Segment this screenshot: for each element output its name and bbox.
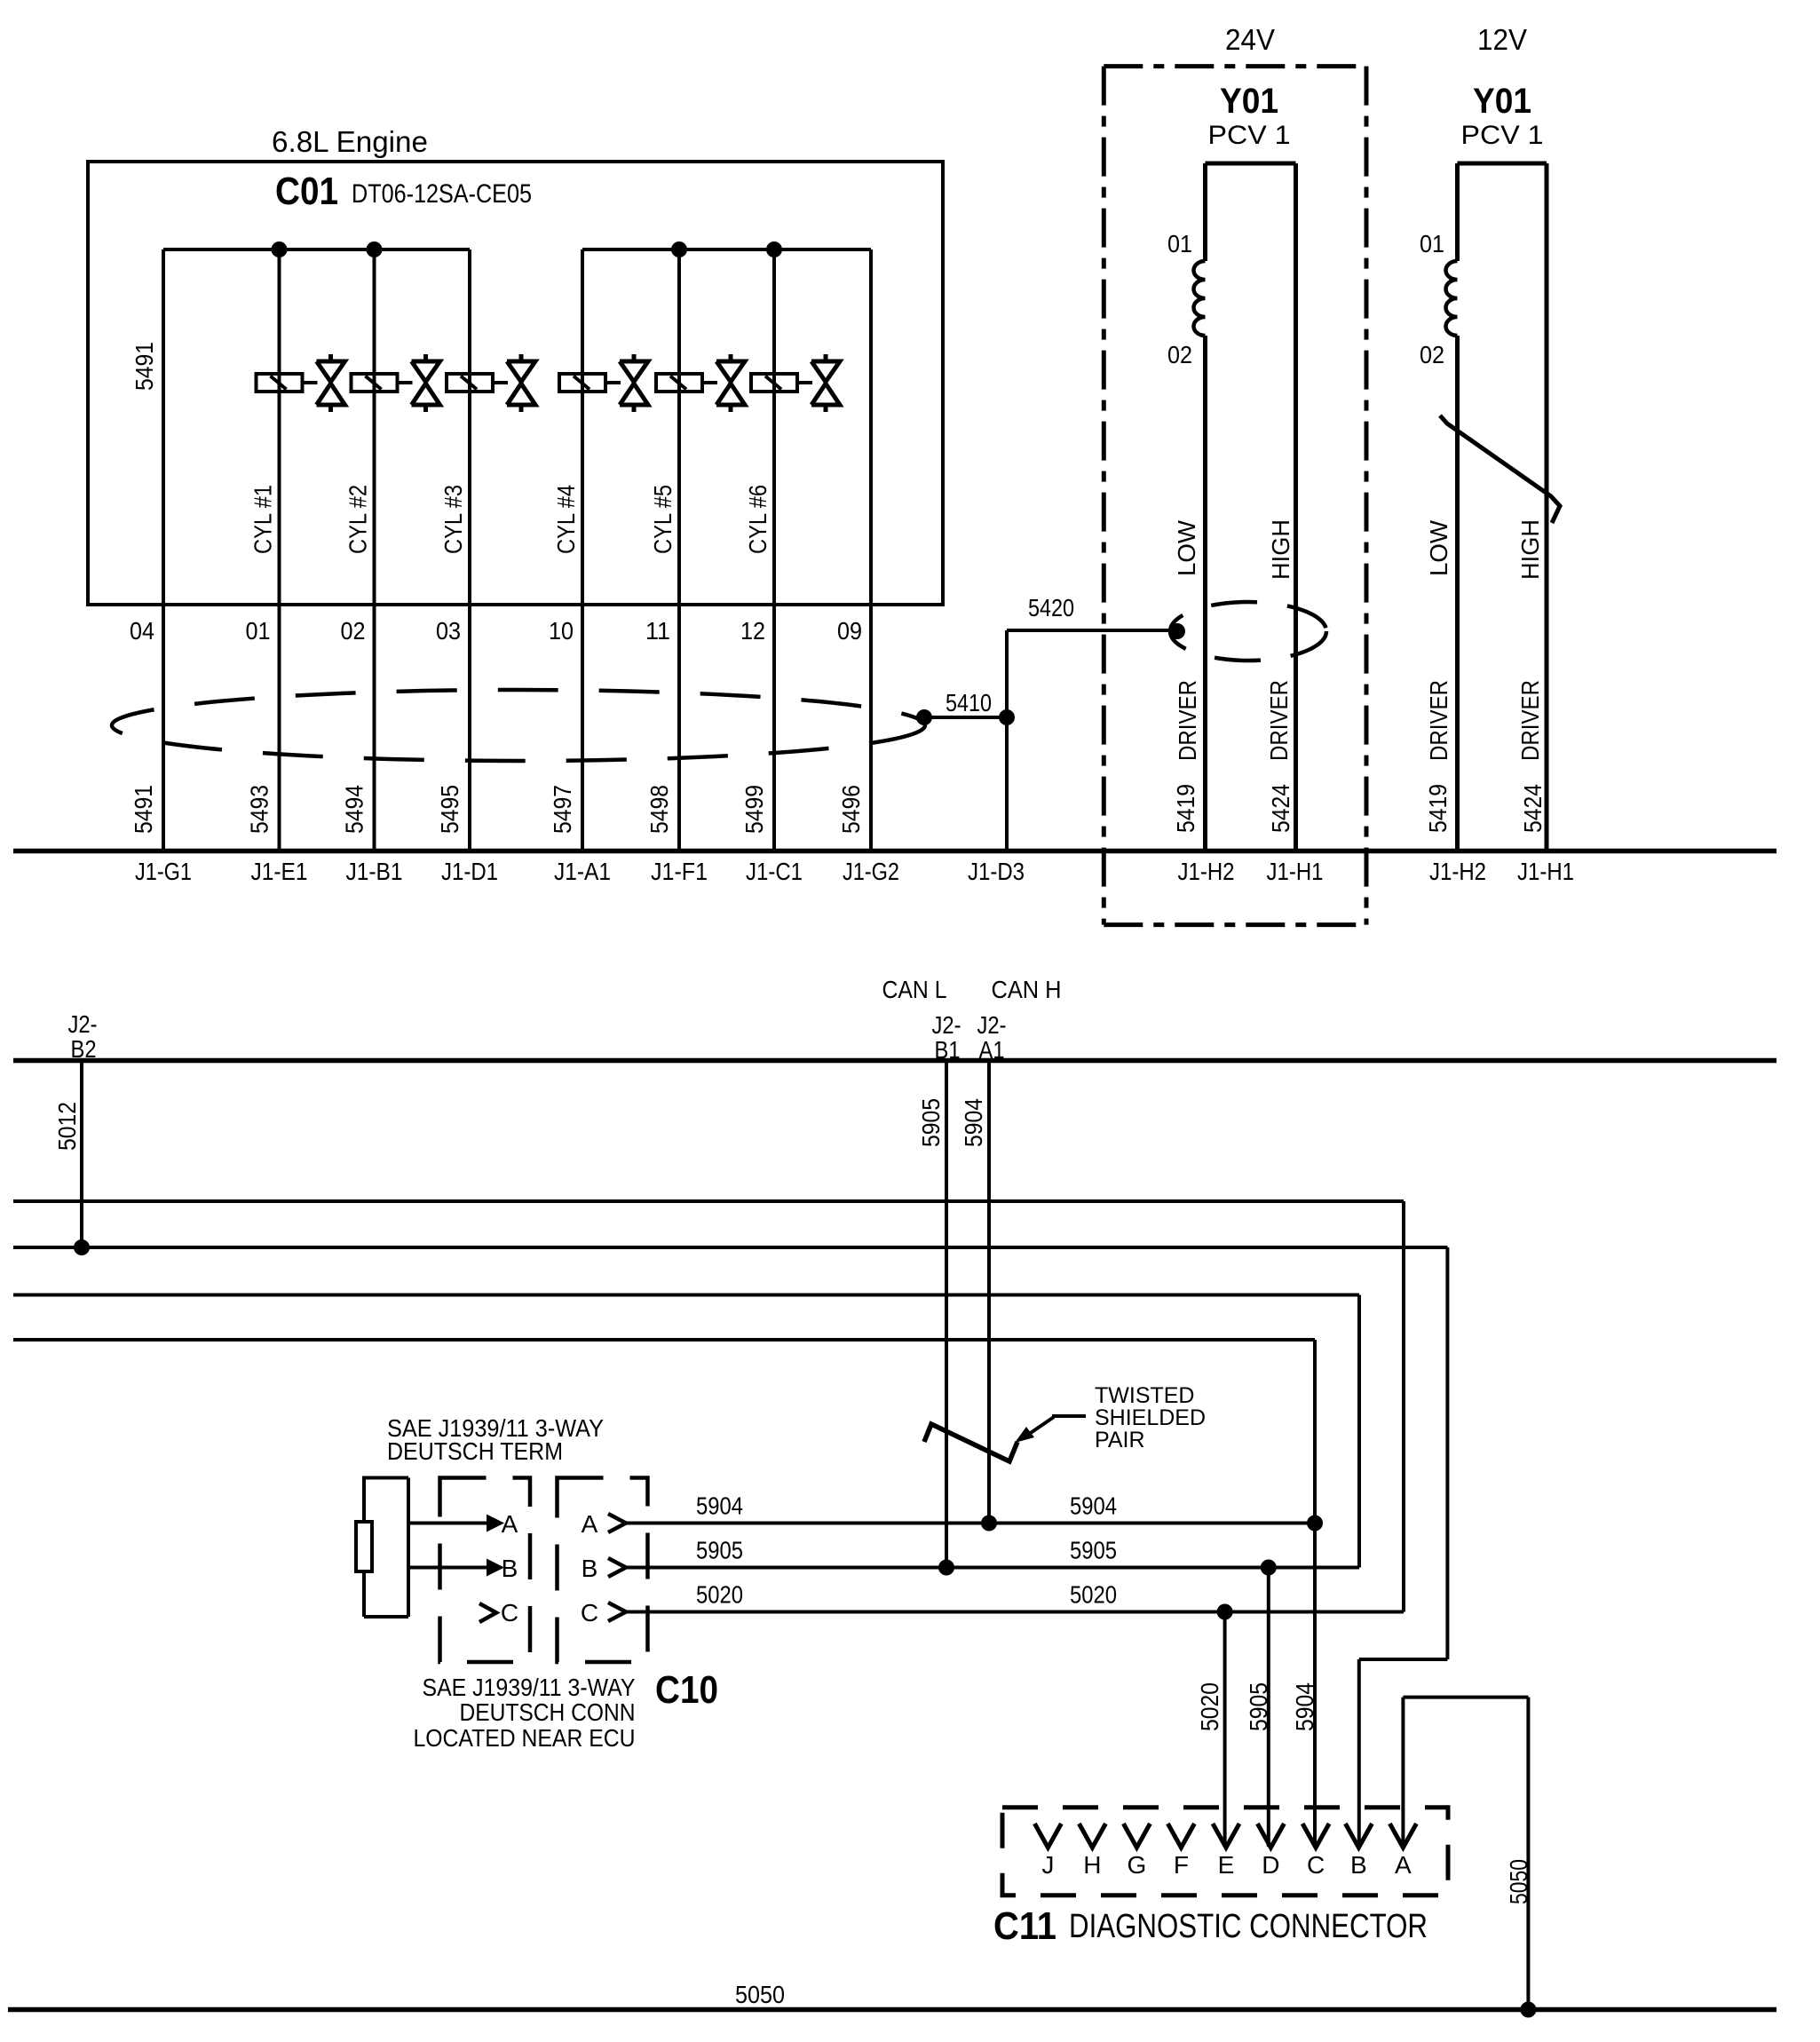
C11 pin B chevron [1345,1824,1372,1848]
svg-text:5410: 5410 [946,689,992,716]
svg-text:12V: 12V [1477,23,1527,56]
node: J2-B1 join dot [938,1560,954,1576]
injector solenoid CYL #2 (coil box) [352,374,398,392]
injector solenoid CYL #6 (coil box) [751,374,797,392]
svg-text:B1: B1 [935,1036,961,1064]
resistor (120 ohm terminator) [356,1522,372,1571]
svg-text:5020: 5020 [1070,1581,1117,1609]
node: 5905 drop join dot [1261,1560,1277,1576]
svg-text:04: 04 [130,617,154,645]
svg-text:5498: 5498 [645,785,673,834]
svg-text:5494: 5494 [341,785,368,834]
svg-text:CYL #1: CYL #1 [249,485,277,554]
svg-text:J1-E1: J1-E1 [251,858,308,885]
svg-text:CAN H: CAN H [992,976,1062,1003]
svg-text:SHIELDED: SHIELDED [1095,1405,1206,1430]
svg-text:B2: B2 [71,1035,97,1063]
pin C chevron (terminator side) [479,1603,496,1622]
svg-text:C10: C10 [655,1668,718,1712]
node: 5410 to J1-D3 riser junction dot [999,709,1015,725]
connector C01 box (6.8L Engine) [88,162,943,605]
svg-text:C: C [501,1599,518,1626]
injector solenoid CYL #1 (coil box) [257,374,303,392]
leader line TWISTED SHIELDED PAIR [1052,1414,1086,1418]
svg-text:CYL #4: CYL #4 [552,485,580,554]
svg-text:DT06-12SA-CE05: DT06-12SA-CE05 [352,179,532,209]
svg-text:J2-: J2- [977,1011,1007,1039]
injector valve CYL #3 [493,381,508,384]
wire 5050 from battery bus to C11 pin A [1526,1698,1530,2010]
svg-text:DRIVER: DRIVER [1425,680,1452,761]
svg-text:11: 11 [645,617,670,645]
svg-text:5020: 5020 [1196,1682,1223,1731]
svg-text:Y01: Y01 [1473,82,1531,121]
svg-text:DEUTSCH CONN: DEUTSCH CONN [460,1698,636,1726]
svg-text:5905: 5905 [696,1537,743,1564]
svg-text:J1-H1: J1-H1 [1267,858,1324,885]
svg-text:TWISTED: TWISTED [1095,1383,1195,1408]
svg-text:5050: 5050 [1505,1859,1532,1904]
svg-text:PCV 1: PCV 1 [1208,121,1291,150]
svg-text:5905: 5905 [1070,1537,1117,1564]
wire 5420 horizontal [1007,629,1177,632]
node: harness to wire 5410 junction dot [916,709,932,725]
svg-text:J: J [1041,1851,1054,1879]
C11 pin G chevron [1123,1824,1150,1848]
valve Y01 PCV 1 (12V) body and coil, pins 01/02, LOW/HIGH wires [1458,162,1547,166]
svg-text:J1-G1: J1-G1 [135,858,192,885]
wire 5020 drop to C11 pin E [1223,1612,1227,1848]
svg-text:5499: 5499 [740,785,768,834]
wire 5904 horizontal run [13,1338,1315,1342]
svg-text:02: 02 [341,617,366,645]
svg-text:E: E [1218,1851,1235,1879]
wire 5410 [924,716,1007,719]
wire 5012 horizontal run [13,1246,1447,1249]
wire 5497 vertical from rail to J1 bus (pin 10, J1-A1) [581,249,584,851]
svg-text:5491: 5491 [131,342,158,391]
connector C10 dashed housing [558,1478,648,1663]
svg-text:DEUTSCH TERM: DEUTSCH TERM [387,1437,563,1465]
svg-text:LOW: LOW [1425,519,1452,576]
svg-text:D: D [1262,1851,1279,1879]
injector valve CYL #6 [797,381,812,384]
wire 5012 step to C11 pin B [1359,1658,1448,1661]
svg-text:PCV 1: PCV 1 [1461,121,1544,150]
svg-text:CAN L: CAN L [882,976,947,1003]
C11 pin A chevron [1389,1824,1416,1848]
node: 5050 battery bus dot [1520,2002,1536,2018]
svg-text:5904: 5904 [696,1492,743,1520]
svg-text:J1-H2: J1-H2 [1429,858,1486,885]
svg-text:A1: A1 [979,1036,1005,1064]
svg-text:J2-: J2- [932,1011,961,1039]
svg-text:02: 02 [1167,341,1192,368]
svg-text:LOCATED NEAR ECU: LOCATED NEAR ECU [414,1724,636,1752]
svg-text:J1-G2: J1-G2 [843,858,899,885]
connector C11 dashed housing [1002,1808,1448,1896]
injector valve CYL #2 [398,381,413,384]
node: 5420 to PCV harness dot [1169,623,1185,639]
node: 5012 junction dot on switched line [74,1239,90,1255]
svg-text:5020: 5020 [696,1581,743,1609]
wire 5012 from J2-B2 [80,1061,83,1248]
svg-text:J1-A1: J1-A1 [554,858,611,885]
svg-text:CYL #6: CYL #6 [744,485,772,554]
PCV harness ellipse (dashed) [1170,602,1326,661]
svg-text:Y01: Y01 [1220,82,1278,121]
wire 5498 vertical from rail to J1 bus (pin 11, J1-F1) [677,249,681,851]
svg-text:SAE J1939/11 3-WAY: SAE J1939/11 3-WAY [423,1674,636,1701]
svg-text:DRIVER: DRIVER [1174,680,1201,761]
svg-text:B: B [1350,1851,1367,1879]
wire 5491 vertical from rail to J1 bus (pin 04, J1-G1) [162,249,165,851]
injector valve CYL #5 [702,381,717,384]
svg-text:12: 12 [740,617,765,645]
svg-text:H: H [1083,1851,1101,1879]
wire 5012 vertical drop [1445,1247,1449,1659]
wire 5493 vertical from rail to J1 bus (pin 01, J1-E1) [278,249,281,851]
C11 pin D chevron [1257,1824,1284,1848]
24V option dash-dot border box [1104,64,1366,68]
wire 5020 horizontal run [13,1199,1404,1203]
wire 5020 vertical drop [1402,1201,1405,1612]
svg-text:10: 10 [549,617,574,645]
svg-text:5493: 5493 [246,785,273,834]
injector solenoid CYL #4 (coil box) [559,374,605,392]
svg-text:HIGH: HIGH [1516,519,1544,580]
wire 5904 vertical drop to C11 pin C [1313,1340,1317,1847]
wire 5905 vertical drop [1357,1295,1361,1568]
wire 5495 vertical from rail to J1 bus (pin 03, J1-D1) [468,249,471,851]
wire J1-D3 riser [1005,630,1009,851]
wire 5905 row from C10-B [626,1566,1359,1570]
injector valve CYL #1 [303,381,318,384]
harness ellipse (dashed) across injector wires [112,690,925,761]
node: 5904 drop join dot [1307,1516,1323,1531]
svg-text:LOW: LOW [1173,519,1200,576]
C11 pin J chevron [1034,1824,1061,1848]
injector solenoid CYL #5 (coil box) [656,374,702,392]
wire 5020 row from C10-C [626,1611,1404,1614]
svg-text:01: 01 [1420,230,1444,257]
injector valve CYL #4 [605,381,621,384]
svg-text:03: 03 [436,617,461,645]
wire terminator to pin B [408,1566,487,1570]
wire 5905 drop to C11 pin D [1267,1568,1270,1848]
C11 pin F chevron [1167,1824,1194,1848]
svg-text:24V: 24V [1225,23,1275,56]
battery bus 5050 [8,2007,1776,2013]
pin A chevron (C10) [608,1514,626,1532]
svg-text:09: 09 [837,617,862,645]
svg-text:CYL #2: CYL #2 [344,485,372,554]
svg-text:A: A [1395,1851,1412,1879]
svg-text:PAIR: PAIR [1095,1428,1145,1452]
valve Y01 PCV 1 (24V) body and coil, pins 01/02, LOW/HIGH wires [1206,162,1296,166]
svg-text:C: C [1307,1851,1325,1879]
svg-text:5496: 5496 [837,785,865,834]
injector solenoid CYL #3 (coil box) [447,374,493,392]
ECU J1 bus line [13,849,1776,854]
svg-text:G: G [1128,1851,1147,1879]
svg-text:J1-C1: J1-C1 [746,858,803,885]
svg-text:J1-H1: J1-H1 [1517,858,1574,885]
svg-text:DRIVER: DRIVER [1516,680,1544,761]
svg-text:01: 01 [246,617,271,645]
svg-text:J2-: J2- [68,1010,98,1038]
wire 5904 from J2-A1 [987,1061,991,1524]
wire 5494 vertical from rail to J1 bus (pin 02, J1-B1) [373,249,376,851]
crossover slash symbol (12V) [1440,416,1560,523]
svg-text:DRIVER: DRIVER [1265,680,1293,761]
svg-text:J1-F1: J1-F1 [651,858,708,885]
svg-text:HIGH: HIGH [1267,519,1294,580]
node: J2-A1 join dot [981,1516,997,1531]
svg-text:A: A [502,1510,518,1538]
wire 5497 common rail group 2 (top bus inside C01) [582,248,871,251]
svg-text:5495: 5495 [436,785,463,834]
svg-text:5904: 5904 [960,1098,987,1147]
svg-text:5424: 5424 [1519,784,1547,833]
svg-text:5420: 5420 [1028,594,1074,621]
svg-text:C: C [581,1599,598,1626]
wire 5905 from J2-B1 [945,1061,948,1568]
pin C chevron (C10) [608,1603,626,1621]
svg-text:B: B [502,1555,518,1582]
svg-text:5904: 5904 [1070,1492,1117,1520]
svg-text:5497: 5497 [549,785,576,834]
svg-text:5012: 5012 [53,1102,81,1151]
node: 5020 drop join dot [1217,1604,1233,1620]
svg-text:C11: C11 [993,1904,1056,1948]
svg-text:J1-H2: J1-H2 [1178,858,1235,885]
svg-text:A: A [582,1510,598,1538]
svg-text:CYL #3: CYL #3 [439,485,467,554]
DEUTSCH TERM dashed housing [440,1478,531,1663]
svg-text:CYL #5: CYL #5 [649,485,677,554]
svg-text:J1-D1: J1-D1 [441,858,498,885]
wire 5904 row from C10-A [626,1522,1315,1525]
svg-text:6.8L Engine: 6.8L Engine [272,125,428,158]
twisted pair symbol on CAN wires [924,1424,1017,1461]
wire 5499 vertical from rail to J1 bus (pin 12, J1-C1) [772,249,776,851]
terminating resistor circuit [362,1476,408,1480]
wire terminator to pin A [408,1522,487,1525]
wire 5491 common rail group 1 (top bus inside C01) [163,248,470,251]
svg-text:5904: 5904 [1291,1682,1318,1731]
pin B chevron (C10) [608,1558,626,1577]
junction dots on group rails [272,241,288,257]
svg-text:5419: 5419 [1424,784,1452,833]
svg-text:DIAGNOSTIC CONNECTOR: DIAGNOSTIC CONNECTOR [1069,1908,1428,1945]
svg-text:5419: 5419 [1172,784,1199,833]
svg-text:F: F [1174,1851,1189,1879]
svg-text:01: 01 [1167,230,1192,257]
svg-text:C01: C01 [275,170,338,213]
svg-text:J1-B1: J1-B1 [346,858,403,885]
wire 5905 horizontal run [13,1294,1359,1297]
svg-text:J1-D3: J1-D3 [968,858,1025,885]
wire 5496 vertical from rail to J1 bus (pin 09, J1-G2) [869,249,873,851]
svg-text:5905: 5905 [1245,1682,1272,1731]
svg-text:02: 02 [1420,341,1444,368]
svg-text:5905: 5905 [917,1098,945,1147]
C11 pin E chevron [1213,1824,1239,1848]
svg-text:5424: 5424 [1267,784,1294,833]
svg-text:5491: 5491 [130,785,157,834]
ECU J2 bus line [13,1058,1776,1064]
C11 pin C chevron [1302,1824,1329,1848]
svg-text:5050: 5050 [735,1981,785,2008]
svg-text:B: B [582,1555,598,1582]
C11 pin H chevron [1079,1824,1105,1848]
